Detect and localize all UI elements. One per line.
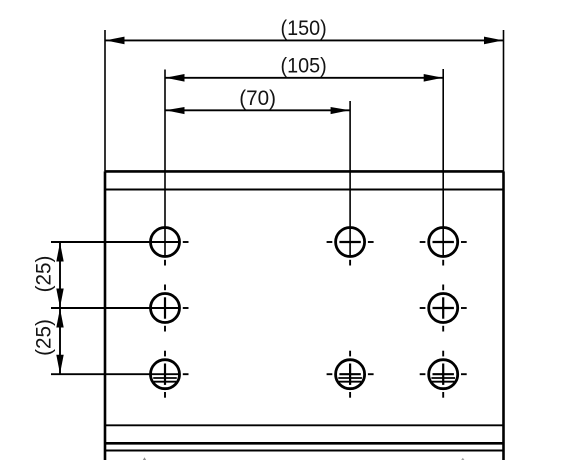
svg-text:(150): (150) [281,16,327,40]
plate left edge (thick object line) [104,171,107,460]
hole H1 row1 col1 [151,228,189,266]
extension line right at x=503.5 [503,30,505,171]
vertical dimension line (25)x2 at x=60 [59,242,61,374]
plate bend line near top (thin object line) [105,189,504,191]
arrowhead (150) left [106,37,125,45]
extension line at x=443 down to hole row 1 [442,69,444,256]
hole H7 row3 col2 with thread chords [327,351,374,398]
plate right edge (thick object line) [502,171,505,460]
dimension line (150) [105,39,504,41]
arrowhead (70) left [166,107,185,114]
centerline row 2 from left dimension to hole [51,307,179,309]
svg-text:(25): (25) [32,319,55,356]
clipped arrowhead tip lower-right (gray) [461,458,464,460]
plate bottom edge (thick object line) [105,442,504,445]
arrowhead (25) second up [56,309,63,328]
centerline row 1 from left dimension to hole [51,241,179,243]
hole H2 row1 col2 [327,228,374,266]
arrowhead (70) right [331,107,350,114]
arrowhead (150) right [484,37,503,45]
plate lower bend line (thin object line) [105,450,504,452]
clipped arrowhead tip lower-left (gray) [143,457,146,460]
hole H4 row2 col1 [151,285,189,332]
hole H5 row2 col3 [420,285,467,332]
svg-text:(25): (25) [32,256,55,293]
centerline row 3 from left dimension to hole [51,373,179,375]
arrowhead (25) top up [56,243,63,262]
extension line left at x=105 [104,30,106,171]
arrowhead (105) right [424,74,443,82]
extension line at x=165 down to hole row 1 [164,70,166,257]
hole H8 row3 col3 with thread chords [420,351,467,398]
arrowhead (105) left [166,74,185,82]
dimension line (70) [165,109,350,111]
arrowhead (25) first down [56,289,63,308]
svg-text:(105): (105) [281,54,327,78]
arrowhead (25) bottom down [56,355,63,374]
plate top edge (thick object line) [105,170,504,173]
svg-text:(70): (70) [239,87,276,110]
hole H6 row3 col1 with thread chords [151,351,189,398]
plate bend line lower (thin object line) [105,424,504,426]
hole H3 row1 col3 [420,228,467,266]
extension line at x=350 down to hole row 1 [349,101,351,256]
dimension line (105) [165,77,443,79]
